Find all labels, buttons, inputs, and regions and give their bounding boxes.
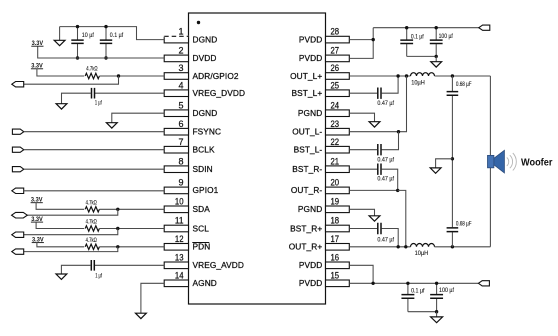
wire bst cap to OUT_R+ [382,229,399,247]
wire cap bottoms [407,55,437,57]
svg-text:6: 6 [178,119,183,129]
svg-text:PVDD: PVDD [299,278,322,288]
svg-text:3: 3 [178,63,183,73]
wire DGND rail to pin 1 [60,27,165,40]
node PDN junction [116,245,119,248]
svg-text:BST_R+: BST_R+ [290,223,322,233]
svg-text:24: 24 [331,100,340,110]
svg-text:VREG_AVDD: VREG_AVDD [193,260,244,270]
capacitor C6 100uF [430,28,453,57]
inductor L1 10uH [411,73,435,76]
capacitor C7 0.47uF [378,88,381,99]
wire pin 18 to bst cap [349,228,377,230]
svg-text:SDIN: SDIN [193,164,213,174]
pin 21 BST_R- [292,156,349,174]
svg-text:0.47 µf: 0.47 µf [377,157,394,164]
capacitor C8 0.47uF [378,144,381,155]
wire pin 13 to capacitor [95,264,165,266]
power 3.3V [32,236,44,243]
wire resistor to pin 11 [99,228,164,230]
resistor R4 4.7k [85,244,99,249]
junction [371,282,374,285]
pin 15 PVDD [299,270,349,288]
svg-text:4.7kΩ: 4.7kΩ [86,199,97,206]
ground [431,56,442,67]
wire pin 26 OUT_L+ [349,75,410,77]
port SCL [12,232,24,237]
inductor L2 10uH [411,244,435,247]
junction [404,245,407,248]
junction [397,130,400,133]
svg-text:19: 19 [331,196,340,206]
svg-text:PVDD: PVDD [299,260,322,270]
pin 1 marker dot [197,21,200,24]
pin 27 PVDD [299,46,349,64]
wire bst cap to OUT_L+ [382,76,399,93]
wire SDIN [24,168,164,170]
svg-text:9: 9 [178,178,183,188]
svg-text:0.1 µf: 0.1 µf [411,34,424,41]
wire pin 27 tie [349,28,373,59]
svg-text:4.7kΩ: 4.7kΩ [86,65,97,72]
capacitor C14 100uF [430,283,454,311]
node OUT_L filtered [451,74,454,77]
svg-text:10: 10 [175,196,184,206]
wire pin 23 OUT_L- [349,131,398,133]
wire capacitor to ground [62,93,92,104]
speaker woofer icon [488,150,517,173]
svg-text:27: 27 [331,46,340,56]
svg-text:DGND: DGND [193,34,218,44]
svg-text:12: 12 [175,234,184,244]
ground [136,313,147,318]
wire resistor to pin 12 [99,246,164,248]
resistor R3 4.7k [85,226,99,231]
ground [54,27,65,46]
junction [396,189,399,192]
svg-text:4: 4 [178,80,183,90]
svg-text:VREG_DVDD: VREG_DVDD [193,88,246,98]
wire FSYNC [24,131,164,133]
pin 10 SDA [164,196,210,214]
IC U1 audio amplifier body [189,13,326,304]
port PVDD [478,281,489,286]
svg-text:100 µf: 100 µf [439,287,454,294]
junction [405,26,408,29]
capacitor C3 1uF [92,88,95,99]
svg-text:4.7kΩ: 4.7kΩ [86,219,97,226]
wire mid ground tap [436,159,453,168]
wire pin 19 to ground [349,209,374,216]
svg-text:15: 15 [331,270,340,280]
capacitor C4 1uF [91,260,94,271]
port GPIO1 [12,188,24,193]
junction [435,310,438,313]
svg-text:23: 23 [331,119,340,129]
wire pin 5 to ground [112,113,164,123]
wire junction to PDN port [24,247,118,252]
svg-text:8: 8 [178,156,183,166]
svg-text:ADR/GPIO2: ADR/GPIO2 [193,71,239,81]
wire pin 20 OUT_R- [349,189,397,191]
svg-text:0.1 µf: 0.1 µf [411,288,425,295]
node ADR junction [117,74,120,77]
pin 18 BST_R+ [290,216,349,234]
pin 20 OUT_R- [291,178,349,196]
svg-text:21: 21 [331,156,340,166]
svg-text:10µH: 10µH [415,250,429,257]
node OUT_R filtered [451,245,454,248]
junction [396,74,399,77]
ground [56,274,67,279]
svg-text:SDA: SDA [193,204,211,214]
junction [76,56,79,59]
pin 14 AGND [164,270,217,288]
svg-text:13: 13 [175,252,184,262]
pin 19 PGND [298,196,349,214]
svg-text:BCLK: BCLK [193,145,215,155]
wire junction to SCL port [24,229,118,235]
wire pin 22 to bst cap [349,149,377,151]
wire pin 24 to ground [349,113,374,122]
junction [104,56,107,59]
svg-text:1: 1 [178,27,183,37]
pin 22 BST_L- [294,137,350,155]
pin 26 OUT_L+ [290,63,349,81]
svg-text:SCL: SCL [193,223,210,233]
svg-text:OUT_R-: OUT_R- [291,185,323,195]
wire 3.3V to resistor [37,243,84,247]
svg-text:PVDD: PVDD [299,34,322,44]
junction [372,38,375,41]
svg-text:BST_L+: BST_L+ [291,88,322,98]
svg-text:DGND: DGND [193,108,218,118]
wire 3.3V to DVDD pin 2 [38,46,165,58]
pin 5 DGND [164,100,217,118]
pin 16 PVDD [299,252,349,270]
svg-text:25: 25 [331,80,340,90]
pin 24 PGND [298,100,349,118]
svg-text:BST_R-: BST_R- [292,164,322,174]
wire PVDD top rail [373,27,479,29]
wire PVDD bottom rail [349,282,478,284]
svg-text:PVDD: PVDD [299,53,322,63]
wire 3.3V to resistor [37,69,84,76]
ground [56,104,67,109]
wire resistor to pin 3 [99,75,164,77]
pin 4 VREG_DVDD [164,80,245,98]
svg-text:26: 26 [331,63,340,73]
svg-text:100 µf: 100 µf [439,33,453,40]
ground [369,122,380,127]
svg-text:Woofer: Woofer [521,158,553,169]
wire capacitor to ground [61,265,91,274]
svg-text:0.1 µf: 0.1 µf [110,32,124,39]
svg-text:GPIO1: GPIO1 [193,185,219,195]
svg-text:0.68 µF: 0.68 µF [456,220,472,227]
wire pin 16 tie [349,265,373,283]
wire OUT_L to speaker top [435,75,491,77]
pin 6 FSYNC [164,119,221,137]
svg-text:4.7kΩ: 4.7kΩ [86,237,97,244]
wire pin 14 to ground [141,283,164,313]
wire pin 25 to bst cap [349,92,377,94]
svg-text:PDN: PDN [193,242,211,252]
svg-text:PGND: PGND [298,108,322,118]
svg-text:2: 2 [178,46,183,56]
wire 3.3V to resistor [36,203,84,210]
wire OUT_R to speaker bottom [435,246,491,248]
pin 25 BST_L+ [291,80,349,98]
svg-text:0.68 µF: 0.68 µF [456,81,472,88]
capacitor C2 0.1uF [100,27,124,58]
pin 7 BCLK [164,137,215,155]
junction [435,55,438,58]
junction [405,74,408,77]
pin 23 OUT_L- [292,119,349,137]
wire junction to SDA port [27,209,118,215]
junction [451,157,454,160]
wire GPIO1 [24,190,165,192]
capacitor C11 0.68uF [447,76,472,159]
svg-text:FSYNC: FSYNC [193,127,222,137]
port PDN [12,249,24,254]
svg-text:16: 16 [331,252,340,262]
junction [397,245,400,248]
pin 12 PDN [164,234,210,252]
ground [369,216,380,221]
ground [430,168,441,173]
svg-text:PGND: PGND [298,204,322,214]
pin 9 GPIO1 [164,178,218,196]
pin 17 OUT_R+ [289,234,350,252]
svg-text:AGND: AGND [193,278,217,288]
resistor R1 4.7k [85,73,99,78]
svg-text:28: 28 [331,27,340,37]
svg-text:10 µf: 10 µf [82,32,94,39]
junction [76,25,79,28]
wire pin 4 to capacitor [95,92,164,94]
pin 2 DVDD [164,46,216,64]
port SDIN [12,167,23,172]
wire BCLK [24,149,164,151]
svg-text:7: 7 [178,137,183,147]
pin 1 DGND [164,27,218,45]
svg-text:17: 17 [331,234,340,244]
svg-text:DVDD: DVDD [193,53,217,63]
wire bst cap to OUT_R- [382,169,398,190]
capacitor C5 0.1uF [400,28,424,57]
svg-text:10µH: 10µH [411,80,425,87]
power 3.3V [31,216,43,223]
wire cap bottoms [408,311,437,313]
svg-text:18: 18 [331,216,340,226]
junction [406,282,409,285]
capacitor C12 0.68uF [447,159,472,247]
port ADR [12,82,24,87]
power 3.3V [31,63,43,70]
svg-text:OUT_L-: OUT_L- [292,127,322,137]
wire pin 28 tie [349,39,373,41]
junction [435,26,438,29]
node SDA junction [116,208,119,211]
capacitor C9 0.47uF [378,164,381,175]
pin 13 VREG_AVDD [164,252,244,270]
wire speaker vertical [489,76,491,247]
svg-text:0.47 µf: 0.47 µf [377,176,394,183]
wire pin 21 to bst cap [349,168,377,170]
junction [435,282,438,285]
wire 3.3V to resistor [36,222,84,228]
wire resistor to pin 10 [99,208,164,210]
junction [104,25,107,28]
ground [106,123,117,128]
port BCLK [12,147,23,152]
ground [431,312,443,323]
pin 8 SDIN [164,156,213,174]
svg-text:1 µf: 1 µf [95,100,102,107]
svg-text:20: 20 [331,178,340,188]
svg-text:0.47 µf: 0.47 µf [377,100,394,107]
svg-text:11: 11 [175,216,184,226]
resistor R2 4.7k [85,207,99,212]
pin 11 SCL [164,216,209,234]
wire to bst cap L- [382,132,399,150]
pin 28 PVDD [299,27,349,45]
svg-text:OUT_L+: OUT_L+ [290,71,322,81]
node SCL junction [116,227,119,230]
wire junction to ADR port [24,76,119,84]
port SDA [12,212,28,218]
svg-text:22: 22 [331,137,340,147]
wire OUT_R- tie [398,190,406,246]
port FSYNC [12,129,23,134]
svg-text:1 µf: 1 µf [95,272,102,279]
port PVDD [479,25,490,30]
capacitor C10 0.47uF [378,223,381,234]
capacitor C1 10uF [71,27,94,58]
pin 3 ADR/GPIO2 [164,63,239,81]
svg-text:0.47 µf: 0.47 µf [377,236,394,243]
wire pin 17 OUT_R+ [349,246,410,248]
svg-text:BST_L-: BST_L- [294,145,323,155]
svg-text:OUT_R+: OUT_R+ [289,242,323,252]
power 3.3V [31,40,43,47]
svg-text:14: 14 [175,270,184,280]
svg-text:5: 5 [178,100,183,110]
wire OUT_L- tie [399,76,407,132]
power 3.3V [31,197,43,204]
capacitor C13 0.1uF [401,283,424,311]
